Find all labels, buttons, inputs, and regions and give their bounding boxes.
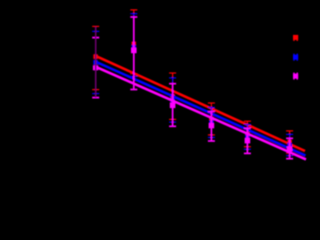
blue data points bbox=[93, 45, 292, 147]
red errorbar C5 bbox=[244, 121, 251, 147]
fit line magenta series bbox=[94, 66, 306, 159]
legend key magenta bbox=[293, 73, 298, 80]
legend key blue bbox=[293, 54, 298, 61]
red errorbar C2 bbox=[130, 10, 137, 74]
blue errorbar C4 bbox=[208, 107, 215, 137]
fit line blue series bbox=[94, 61, 306, 156]
red errorbar C3 bbox=[169, 73, 176, 119]
blue errorbar C2 bbox=[130, 14, 137, 77]
red errorbar C6 bbox=[286, 131, 293, 153]
magenta errorbar C2 bbox=[130, 17, 137, 90]
magenta errorbar C4 bbox=[208, 112, 215, 142]
magenta errorbar C5 bbox=[244, 128, 251, 153]
blue errorbar C1 caps bbox=[92, 31, 99, 93]
blue errorbar C5 bbox=[244, 125, 251, 150]
legend key red bbox=[293, 35, 298, 41]
red errorbar C4 bbox=[208, 103, 215, 135]
blue errorbar C6 bbox=[286, 134, 293, 155]
C1 antialiased dark stem overlay bbox=[95, 26, 97, 97]
magenta data points bbox=[93, 48, 293, 152]
fit line red series bbox=[94, 55, 305, 151]
magenta errorbar C6 bbox=[286, 138, 293, 158]
blue errorbar C3 bbox=[169, 78, 176, 122]
magenta errorbar C3 bbox=[169, 84, 176, 127]
red data points bbox=[93, 42, 292, 145]
red errorbar cluster C1 caps bbox=[92, 26, 99, 89]
magenta errorbar C1 caps bbox=[92, 38, 99, 98]
